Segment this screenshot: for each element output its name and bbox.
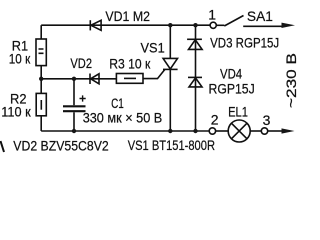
svg-text:EL1: EL1: [228, 103, 248, 119]
svg-text:~230 В: ~230 В: [283, 53, 299, 108]
svg-text:110 к: 110 к: [1, 103, 31, 119]
svg-text:330 мк × 50 В: 330 мк × 50 В: [83, 109, 163, 125]
svg-text:VD3 RGP15J: VD3 RGP15J: [210, 35, 279, 51]
svg-text:10 к: 10 к: [9, 50, 31, 66]
svg-text:SA1: SA1: [247, 8, 273, 24]
svg-text:RGP15J: RGP15J: [209, 80, 255, 96]
svg-text:VS1 BT151-800R: VS1 BT151-800R: [128, 137, 215, 153]
svg-text:VD1 M2: VD1 M2: [105, 8, 150, 24]
svg-text:VD2 BZV55C8V2: VD2 BZV55C8V2: [13, 137, 109, 153]
svg-text:VD2: VD2: [70, 55, 92, 71]
svg-text:1: 1: [208, 7, 216, 23]
svg-text:R3 10 к: R3 10 к: [109, 56, 151, 72]
svg-text:2: 2: [211, 111, 219, 127]
svg-text:VS1: VS1: [141, 40, 165, 56]
svg-text:VD4: VD4: [220, 66, 242, 82]
svg-text:3: 3: [263, 112, 271, 128]
